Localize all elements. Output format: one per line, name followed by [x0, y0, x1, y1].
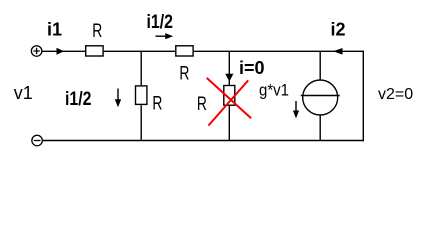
- svg-text:R: R: [92, 20, 102, 42]
- wire bottom: [43, 140, 364, 142]
- wire top: R2 to right corner: [194, 50, 363, 52]
- svg-text:R: R: [197, 93, 207, 115]
- terminal plus (v1 +): [31, 46, 42, 57]
- svg-text:i2: i2: [331, 20, 346, 40]
- svg-text:g*v1: g*v1: [259, 80, 289, 99]
- arrow i1/2 down (floating): [115, 89, 121, 108]
- wire: right edge: [362, 51, 364, 142]
- svg-text:v2=0: v2=0: [378, 86, 413, 103]
- resistor R2: [176, 46, 193, 56]
- wire top: R1 to R2: [104, 50, 175, 52]
- wire: top to current source: [319, 51, 321, 79]
- resistor R1: [86, 46, 103, 56]
- wire: node A down to R3: [140, 51, 142, 85]
- red cross line 1 (over R4): [207, 78, 251, 118]
- wire: R4 down to bottom wire: [228, 106, 230, 141]
- arrow i1 on top wire: [57, 48, 65, 55]
- current source chord: [301, 95, 340, 97]
- resistor R3 (vertical): [136, 86, 147, 105]
- wire: current source to bottom: [319, 116, 321, 141]
- current source U1 (circle): [303, 80, 338, 115]
- svg-text:i1: i1: [47, 20, 62, 40]
- wire: node B down to R4: [228, 51, 230, 85]
- arrow i1/2 right (floating): [156, 33, 174, 39]
- red cross line 2 (over R4): [208, 80, 248, 125]
- svg-text:R: R: [152, 92, 162, 114]
- svg-text:i1/2: i1/2: [147, 12, 174, 33]
- svg-text:v1: v1: [14, 83, 33, 103]
- resistor R4 (vertical, crossed out): [224, 86, 235, 106]
- svg-text:i=0: i=0: [239, 58, 265, 78]
- svg-text:R: R: [179, 62, 189, 84]
- arrow i2 on top wire (pointing left): [333, 48, 343, 55]
- wire: R3 down to bottom wire: [140, 105, 142, 140]
- wire top: plus terminal to R1: [42, 50, 85, 52]
- arrow g*v1 down (floating): [293, 101, 299, 119]
- arrow i=0 down on wire: [225, 74, 233, 82]
- svg-text:i1/2: i1/2: [65, 89, 92, 110]
- terminal minus (v1 -): [32, 135, 43, 146]
